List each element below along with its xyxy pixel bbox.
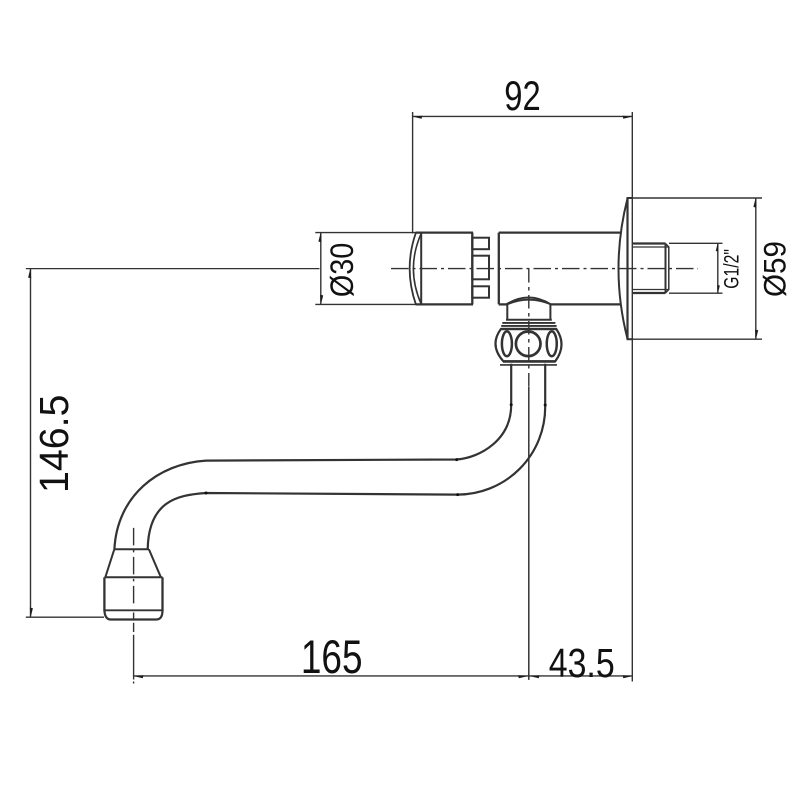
- nozzle taper right side: [149, 549, 161, 577]
- dimension D30 top arrow: [318, 233, 321, 243]
- boss centerline long solid: [528, 387, 530, 680]
- dimension 43.5 right arrow: [623, 675, 633, 678]
- flange rim vertical: [626, 198, 628, 339]
- neck rib A: [472, 238, 489, 250]
- push button cap rim vertical: [420, 233, 422, 304]
- nut top edge: [501, 328, 556, 330]
- dimension 92 left arrow: [413, 116, 423, 119]
- svg-text:165: 165: [301, 631, 363, 683]
- neck rib C: [472, 286, 489, 297]
- svg-text:G1/2": G1/2": [719, 249, 743, 289]
- body bottom line left of boss: [499, 303, 507, 305]
- push button cap face outer arc: [410, 233, 416, 304]
- node dot: [455, 458, 458, 461]
- dimension 92 line: [413, 115, 633, 117]
- push button cap face inner arc: [413, 233, 421, 304]
- spout outer/bottom outline: [148, 364, 546, 550]
- dimension 146.5 top arrow: [28, 269, 31, 279]
- dimension D59 bottom arrow: [755, 330, 758, 340]
- dimension D59 line: [755, 198, 757, 339]
- dimension 165 / 43.5 line: [134, 675, 633, 677]
- dimension G1/2 line: [717, 243, 719, 293]
- nozzle taper left side: [105, 549, 114, 577]
- nipple bottom line: [632, 292, 665, 294]
- node dot: [544, 404, 547, 407]
- dimension D30 extension lines: [315, 232, 415, 234]
- svg-text:Ø30: Ø30: [325, 243, 361, 297]
- svg-text:Ø59: Ø59: [757, 241, 792, 297]
- dimension 92 extension line left (cap face extended): [412, 112, 414, 234]
- svg-text:43.5: 43.5: [549, 640, 615, 686]
- nozzle centerline lower segments: [133, 613, 135, 619]
- nozzle seam line: [104, 609, 162, 611]
- nipple top line: [632, 242, 665, 244]
- wire: wall line vertical: [631, 112, 633, 682]
- flange dome arc: [619, 199, 628, 339]
- dimension 146.5 bottom arrow: [30, 608, 33, 618]
- svg-text:92: 92: [504, 72, 540, 119]
- cap right edge vertical: [471, 233, 473, 305]
- node dot: [456, 493, 459, 496]
- node dot: [205, 492, 208, 495]
- dimension 146.5 bottom extension: [26, 616, 104, 618]
- boss centerline upper dash-dot: [528, 269, 530, 387]
- push button cap bottom line: [416, 303, 474, 305]
- nut bottom second edge: [500, 364, 557, 366]
- boss left side: [506, 304, 508, 319]
- dimension 165 right arrow: [518, 675, 528, 678]
- flange top edge: [627, 197, 633, 199]
- dimension G1/2 bottom arrow: [717, 285, 720, 293]
- collar plate 3: [502, 325, 556, 327]
- dimension 92 right arrow: [623, 116, 633, 119]
- boss right side: [549, 304, 551, 319]
- body bottom line right of boss: [551, 303, 621, 305]
- dimension D30 bottom arrow: [320, 295, 323, 305]
- dimension D59 top arrow: [753, 198, 756, 208]
- boss saddle outer arc: [506, 298, 550, 305]
- nut right facet ellipse: [547, 331, 557, 356]
- neck rib B: [472, 256, 489, 280]
- nipple end vertical: [665, 244, 667, 294]
- nipple thread crest bottom thin: [632, 289, 669, 291]
- nozzle bottom cap: [104, 610, 162, 619]
- dimension D59 extension top: [627, 197, 762, 199]
- spout inner/top outline: [114, 364, 511, 550]
- dimension D30 line: [320, 233, 322, 305]
- centerline horizontal axis (solid extension part): [26, 268, 320, 270]
- nozzle centerline vertical dash-dot: [133, 528, 135, 607]
- push button cap top line: [416, 231, 474, 233]
- svg-text:146.5: 146.5: [31, 395, 77, 493]
- dimension D59 extension bottom: [627, 338, 762, 340]
- collar plate 1: [506, 319, 552, 321]
- dimension G1/2 top arrow: [716, 243, 719, 251]
- dimension 146.5 line: [30, 269, 32, 618]
- collar plate 2: [503, 322, 555, 324]
- nut bottom edge: [503, 360, 556, 362]
- nozzle joint line: [114, 548, 149, 550]
- nipple thread crest top thin: [632, 246, 669, 248]
- nipple chamfer end: [666, 244, 669, 294]
- body left edge vertical: [498, 233, 500, 305]
- nut center facet circle: [516, 332, 541, 357]
- nut barrel outline: [495, 329, 561, 361]
- dimension G1/2 extension bottom: [669, 292, 723, 294]
- nozzle cylinder top edge: [104, 576, 162, 578]
- dimension 165 left arrow: [134, 675, 144, 678]
- dimension G1/2 extension top: [669, 242, 723, 244]
- centerline horizontal axis dash-dot: [391, 268, 698, 270]
- node dot: [510, 403, 513, 406]
- nut left facet ellipse: [502, 331, 512, 356]
- boss saddle inner arc: [508, 300, 551, 305]
- dimension 43.5 left arrow: [530, 675, 540, 678]
- body top line: [499, 231, 621, 233]
- flange bottom edge: [627, 338, 633, 340]
- nozzle cylinder left: [103, 577, 105, 611]
- nozzle cylinder right: [161, 577, 163, 611]
